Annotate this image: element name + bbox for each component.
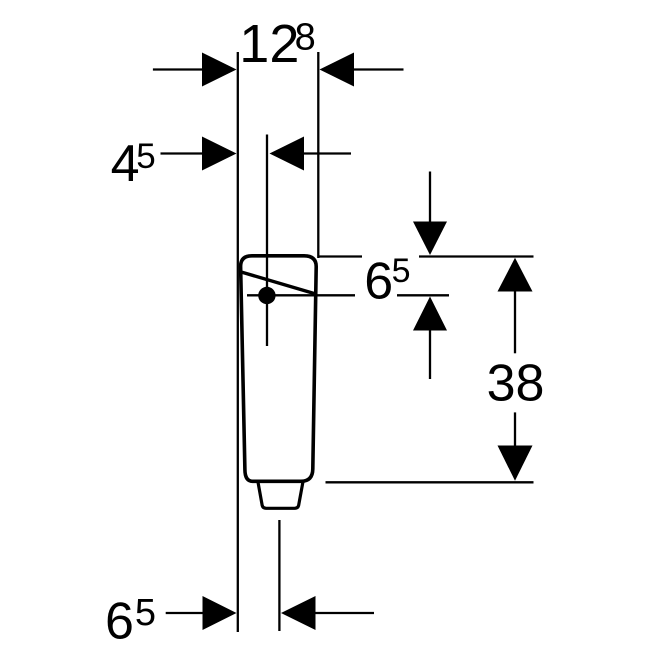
bottom level line (38) <box>326 481 534 483</box>
svg-text:5: 5 <box>136 137 155 176</box>
dimension line 4.5 right tail <box>304 152 351 154</box>
extension line right of tank top (x=318) <box>317 52 319 258</box>
outlet spout trapezoid <box>258 481 303 508</box>
arrowhead 12.8 right <box>320 53 355 87</box>
dimension 38 lower tail <box>514 412 516 446</box>
svg-text:12: 12 <box>239 14 299 74</box>
extension line left wall (x=238) <box>237 52 239 632</box>
dimension line 6.5 bottom right tail <box>316 612 375 614</box>
svg-text:4: 4 <box>111 135 140 193</box>
dimension 6.5 right upper tail <box>429 172 431 223</box>
inlet level tick line <box>247 294 355 296</box>
extension line inlet axis (x=267) <box>266 135 268 347</box>
arrowhead 6.5 up <box>413 297 447 331</box>
inlet level line right segment <box>397 294 449 296</box>
arrowhead 4.5 left <box>202 137 237 171</box>
dimension line 12.8 right tail <box>354 68 404 70</box>
svg-text:5: 5 <box>392 252 411 290</box>
arrowhead 6.5 bottom right <box>281 596 316 630</box>
arrowhead 12.8 left <box>202 53 237 87</box>
extension line outlet axis (x=279.5) <box>278 520 280 631</box>
svg-text:5: 5 <box>135 592 156 634</box>
dimension line 4.5 tail <box>161 152 204 154</box>
svg-text:38: 38 <box>487 355 545 413</box>
svg-text:6: 6 <box>364 252 393 310</box>
dimension line 12.8 left tail <box>153 68 203 70</box>
arrowhead 6.5 down <box>413 222 447 256</box>
arrowhead 38 up <box>498 258 533 292</box>
svg-text:6: 6 <box>105 593 134 650</box>
arrowhead 6.5 bottom left <box>203 596 237 630</box>
inlet connection dot <box>258 287 275 304</box>
cistern body outline <box>241 256 317 481</box>
arrowhead 38 down <box>498 446 533 481</box>
tank top level line right segment <box>419 255 534 257</box>
svg-text:8: 8 <box>295 17 316 59</box>
dimension 38 upper tail <box>514 291 516 353</box>
dimension line 6.5 bottom tail <box>166 612 204 614</box>
cistern lid seam diagonal <box>241 272 315 294</box>
tank top level line left segment <box>319 255 362 257</box>
arrowhead 4.5 right <box>270 137 305 171</box>
dimension 6.5 right lower tail <box>429 331 431 380</box>
